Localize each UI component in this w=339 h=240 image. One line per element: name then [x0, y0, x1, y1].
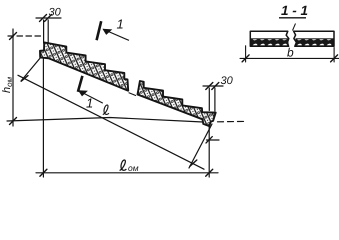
right 30 extension lines [208, 88, 210, 111]
break trace tick above slab [293, 24, 296, 31]
section mark 1 lower: cut line [78, 76, 83, 92]
top 30 right tick [45, 15, 52, 22]
l lower extension from bottom nib [189, 124, 212, 168]
l upper tick [21, 76, 28, 82]
dashed lower platform level right [218, 120, 247, 122]
extension line left end face [43, 20, 45, 43]
svg-text:b: b [287, 46, 294, 60]
section mark 1 lower: arrow [78, 90, 103, 103]
slab left piece outline [250, 31, 288, 46]
stair flight lower part [138, 81, 216, 126]
right 30 dimension line [203, 85, 223, 87]
label l (script ell) on sloped line [103, 105, 109, 115]
soffit stub in break gap [129, 93, 136, 96]
section mark 1 upper: cut line [97, 21, 102, 40]
svg-text:30: 30 [221, 75, 234, 87]
svg-text:1: 1 [86, 96, 93, 111]
slab right piece outline [294, 31, 334, 46]
tick at top of h dimension [10, 33, 17, 40]
level mark right short line [207, 139, 220, 141]
top 30 dimension line [36, 17, 61, 19]
l upper extension from top nib [21, 51, 46, 81]
l_om dimension line [36, 172, 218, 174]
b left tick [242, 55, 249, 62]
b extension line right [333, 48, 335, 63]
svg-text:1: 1 [117, 17, 124, 32]
l_om right tick [206, 169, 213, 176]
right 30 right tick [212, 83, 219, 90]
top 30 left tick [40, 15, 47, 22]
label l_om [120, 160, 127, 171]
l_om left tick [40, 169, 47, 176]
section mark 1 upper: arrow [102, 29, 129, 41]
stair flight upper part [40, 42, 128, 90]
slab right aggregate band [296, 39, 333, 46]
dashed upper platform level line [8, 35, 44, 37]
slab left aggregate band [251, 39, 288, 46]
extension line first riser [47, 20, 49, 44]
right extension line down to l_om [208, 126, 210, 177]
lower platform level line [7, 118, 203, 123]
svg-text:30: 30 [49, 7, 62, 19]
right 30 left tick [206, 83, 213, 90]
vertical dimension line h_om [12, 29, 14, 126]
left extension line down to l_om [42, 55, 44, 177]
b dimension line [240, 57, 339, 59]
b right tick [331, 55, 338, 62]
b extension line left [245, 46, 247, 62]
svg-text:1 - 1: 1 - 1 [281, 3, 308, 18]
header underline [279, 17, 306, 19]
l lower tick [190, 160, 197, 166]
sloped dimension line l [18, 75, 204, 169]
tick at bottom of h dimension [10, 118, 17, 125]
level mark tick [206, 137, 212, 143]
svg-text:ом: ом [128, 163, 139, 173]
